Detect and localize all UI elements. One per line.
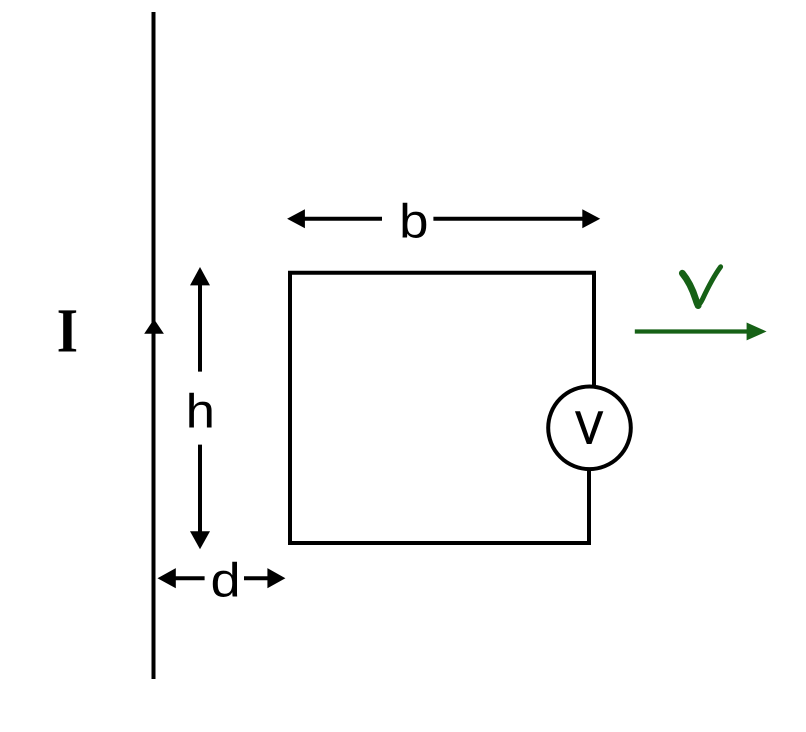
svg-text:d: d	[211, 554, 241, 607]
dimension arrow b (loop width)	[287, 209, 600, 228]
current direction arrowhead on wire	[144, 319, 164, 334]
velocity arrow v (green)	[635, 323, 767, 341]
label I (current)	[57, 296, 78, 366]
svg-text:b: b	[399, 195, 428, 248]
label h	[186, 385, 215, 438]
svg-text:V: V	[576, 402, 604, 454]
label b	[399, 195, 428, 248]
dimension arrow d (distance wire to loop)	[158, 568, 286, 588]
dimension arrow h (loop height)	[190, 267, 210, 549]
label d	[211, 554, 241, 607]
loop: rectangular conducting loop	[290, 273, 594, 543]
velocity label v (green handwritten)	[682, 267, 720, 306]
wire: long straight current-carrying conductor	[152, 12, 156, 679]
voltmeter label V	[576, 402, 604, 454]
svg-text:h: h	[186, 385, 215, 438]
voltmeter V1 circle	[548, 387, 631, 470]
svg-text:I: I	[57, 296, 78, 366]
